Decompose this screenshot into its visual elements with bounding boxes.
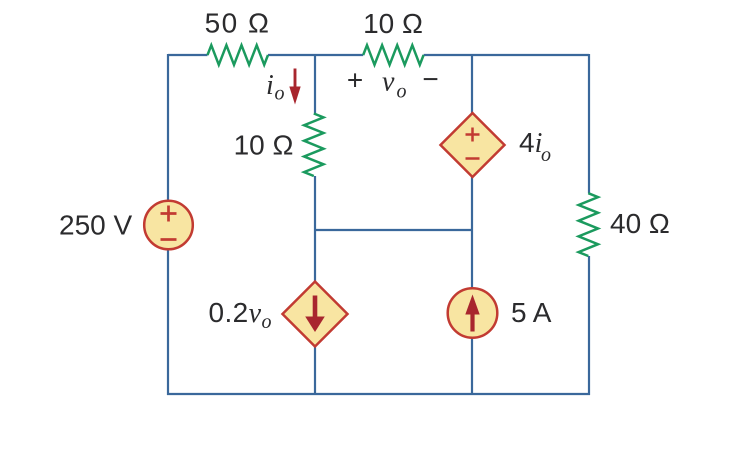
arrow of 5A source (upward)	[470, 312, 474, 332]
wire: top wire left segment (node top-left to R50)	[168, 54, 208, 56]
plus sign of 4io source	[466, 128, 480, 142]
wire: left rail upper (to 250V source)	[167, 54, 169, 201]
resistor R=10 ohm (top middle)	[363, 45, 423, 65]
wire: middle rail A bottom (0.2vo source to bottom wire)	[314, 346, 316, 395]
svg-text:10 Ω: 10 Ω	[234, 130, 294, 161]
svg-text:250 V: 250 V	[59, 210, 132, 241]
resistor R=40 ohm (right vertical)	[579, 193, 598, 256]
wire: rail B top (top wire down to 4io source)	[471, 55, 473, 114]
minus sign of 4io source	[466, 157, 480, 160]
svg-text:5 A: 5 A	[511, 297, 552, 328]
wire: top wire middle segment (R50 to R10 top, through node A at x=315)	[268, 54, 363, 56]
svg-text:10 Ω: 10 Ω	[363, 8, 423, 39]
svg-text:o: o	[262, 311, 272, 333]
svg-text:0.2v: 0.2v	[209, 297, 262, 329]
current source 5A (independent, circle with up arrow)	[448, 288, 498, 338]
wire: middle rail A (R10 vertical to 0.2vo source, through node at middle wire)	[314, 176, 316, 283]
svg-text:40 Ω: 40 Ω	[610, 208, 670, 239]
svg-text:50 Ω: 50 Ω	[205, 8, 271, 39]
resistor R=10 ohm (middle vertical)	[304, 114, 323, 177]
resistor R=50 ohm (top left)	[208, 45, 269, 65]
wire: rail B bottom (5A source to bottom wire)	[471, 338, 473, 396]
svg-text:+: +	[347, 65, 363, 96]
svg-text:o: o	[275, 83, 285, 105]
wire: bottom wire	[167, 393, 590, 395]
current arrow io (red, downward, at node A)	[294, 69, 297, 89]
svg-text:4i: 4i	[519, 127, 542, 159]
wire: top wire right segment (R10 top to top-right corner)	[424, 54, 589, 56]
wire: middle horizontal wire between rail A and rail B	[315, 229, 472, 231]
svg-text:−: −	[422, 64, 438, 95]
dependent current source 0.2vo (diamond with down arrow)	[283, 282, 348, 347]
wire: left rail lower (250V source to bottom-left corner)	[167, 249, 169, 395]
voltage source 250V (independent, circle)	[144, 201, 193, 250]
wire: rail B middle (4io source to 5A source, through node at middle wire)	[471, 177, 473, 290]
svg-text:o: o	[541, 144, 551, 166]
arrow of 0.2vo source (downward)	[313, 296, 318, 319]
wire: middle rail A top (top wire down to R10 vertical)	[314, 55, 316, 114]
svg-text:v: v	[382, 67, 395, 98]
wire: right rail upper (top-right corner to R40)	[588, 54, 590, 193]
minus sign of 250V source	[161, 238, 177, 241]
svg-text:o: o	[397, 81, 407, 103]
dependent voltage source 4io (diamond)	[441, 113, 505, 177]
plus sign of 250V source	[161, 206, 177, 222]
wire: right rail lower (R40 to bottom-right corner)	[588, 256, 590, 395]
svg-text:i: i	[266, 70, 274, 101]
